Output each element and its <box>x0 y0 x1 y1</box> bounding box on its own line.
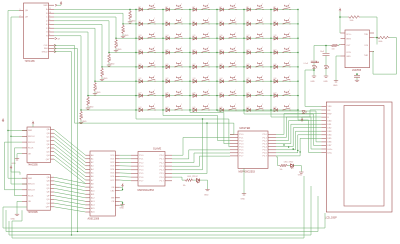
pin QH of IC2 <box>51 154 55 156</box>
junction row 1 pulldown <box>129 9 130 10</box>
svg-text:D19: D19 <box>139 49 142 51</box>
power +5V for 555 <box>339 9 341 12</box>
pin P2.6 of U3 <box>268 152 276 154</box>
pin 7 of IC1 left <box>19 16 24 18</box>
pin P1.1 of U3 <box>230 137 238 139</box>
ground of R6 <box>94 92 96 94</box>
resistor R3 10k pulldown row 3 <box>115 39 118 49</box>
pin DB1 of LCD <box>321 123 326 125</box>
switch S29 <box>256 62 263 66</box>
switch S34 <box>229 77 236 82</box>
svg-text:LED+: LED+ <box>328 149 334 151</box>
junction matrix R8C5 <box>243 109 244 110</box>
svg-text:D8: D8 <box>166 21 168 23</box>
svg-text:LMC555: LMC555 <box>352 69 362 72</box>
pin C of IC1 <box>49 16 55 18</box>
wire bottom bus 3 <box>9 186 311 235</box>
ground IC3 OE <box>15 214 19 215</box>
svg-text:7: 7 <box>20 15 21 17</box>
svg-text:GND: GND <box>96 92 101 94</box>
diode D30 <box>274 65 277 68</box>
junction matrix R1C2 <box>162 9 163 10</box>
diode D43 <box>139 108 142 112</box>
pin DB3 of LCD <box>321 130 326 132</box>
shift register IC1 74HC165 <box>24 3 49 59</box>
svg-text:D38: D38 <box>166 93 169 95</box>
pin P1.0 of U2 <box>131 154 138 156</box>
wire IC3 Q4 to RAM A12 <box>54 192 86 198</box>
wire MASTER P2.4 to LCD <box>276 128 321 147</box>
svg-text:LED-: LED- <box>328 152 333 154</box>
switch S6 <box>283 5 290 9</box>
pin P2.3 of U3 <box>268 143 276 145</box>
junction row 2 pulldown <box>122 23 123 24</box>
junction LCD bus 4 <box>297 150 298 151</box>
ground LED_PROC <box>205 190 209 191</box>
junction matrix R3C5 <box>243 38 244 39</box>
svg-text:D14: D14 <box>166 35 169 37</box>
svg-text:660k: 660k <box>379 41 383 43</box>
pin control of IC4 <box>115 186 120 188</box>
pin left 3 of IC3 <box>22 189 27 191</box>
pin IO2 of IC4 <box>115 161 120 163</box>
svg-text:D31: D31 <box>139 78 142 80</box>
pin RS of LCD <box>321 109 326 111</box>
junction matrix R7C2 <box>162 95 163 96</box>
wire MASTER P2.5 to LCD <box>276 131 321 150</box>
junction matrix R7C6 <box>270 95 271 96</box>
pin A6 of IC4 <box>86 176 91 178</box>
pin QB of IC3 <box>51 180 55 182</box>
wire IC2 Q6 to RAM A6 <box>54 152 86 177</box>
svg-text:TRE: TRE <box>364 34 369 36</box>
wire 100 to LED branch <box>314 45 331 47</box>
pin P1.6 of U2 <box>131 176 138 178</box>
junction matrix R6C7 <box>297 81 298 82</box>
diode D1 <box>139 8 142 11</box>
resistor R5 10k pulldown row 5 <box>101 67 104 77</box>
pin E of LCD <box>321 116 326 118</box>
ground of R2 <box>122 34 124 36</box>
svg-text:D41: D41 <box>247 93 250 95</box>
wire row C to matrix row 3 <box>54 17 298 38</box>
junction matrix R5C6 <box>270 66 271 67</box>
switch S14 <box>175 34 182 38</box>
junction matrix R1C5 <box>243 9 244 10</box>
diode D42 <box>274 94 277 97</box>
wire SLAVE to LED_PROC resistor <box>172 177 185 180</box>
switch S12 <box>283 19 290 23</box>
switch S32 <box>175 77 182 82</box>
switch S9 <box>202 19 209 23</box>
junction matrix R5C5 <box>243 66 244 67</box>
svg-text:4: 4 <box>49 34 50 36</box>
pin GND of IC5 <box>341 55 346 57</box>
switch S25 <box>148 62 155 66</box>
diode D23 <box>247 51 250 54</box>
switch S47 <box>256 105 263 110</box>
svg-text:7: 7 <box>49 23 50 25</box>
pin A5 of IC4 <box>86 172 91 174</box>
ground 555 <box>334 81 338 82</box>
junction matrix R5C4 <box>216 66 217 67</box>
wire matrix column 5 <box>243 10 245 115</box>
wire IC3 Q0 to RAM A8 <box>54 177 86 183</box>
svg-text:10k: 10k <box>124 29 126 32</box>
svg-text:AS6C1008: AS6C1008 <box>88 218 100 221</box>
pin A10 of IC4 <box>86 190 91 192</box>
pin DB5 of LCD <box>321 137 326 139</box>
diode D46 <box>220 108 223 112</box>
svg-text:D3: D3 <box>193 6 195 8</box>
svg-text:MSP430G2553: MSP430G2553 <box>239 170 256 173</box>
wire RAM IO0 to SLAVE <box>120 154 131 156</box>
svg-text:D32: D32 <box>166 78 169 80</box>
svg-text:74HC165: 74HC165 <box>25 60 36 63</box>
svg-text:D30: D30 <box>274 64 277 66</box>
resistor R12 660k <box>377 36 390 39</box>
wire IC1 SH/LD down to bottom bus <box>54 52 72 235</box>
junction row 3 pulldown <box>115 38 116 39</box>
junction matrix R1C7 <box>297 9 298 10</box>
pin left 1 of IC2 <box>22 130 27 132</box>
junction matrix R7C7 <box>297 95 298 96</box>
junction matrix R8C2 <box>162 109 163 110</box>
diode D21 <box>193 51 196 54</box>
junction RAM OE <box>122 189 123 190</box>
svg-text:GND: GND <box>124 35 129 37</box>
wire SLAVE P2.3 to MASTER P1.7 <box>172 156 230 166</box>
diode D41 <box>247 94 250 97</box>
pin P1.5 of U2 <box>131 172 138 174</box>
svg-text:D28: D28 <box>220 64 223 66</box>
svg-text:9: 9 <box>20 9 21 11</box>
junction matrix R8C4 <box>216 109 217 110</box>
svg-text:RCLK: RCLK <box>28 195 34 197</box>
svg-text:D37: D37 <box>139 93 142 95</box>
junction on left bus 2 <box>10 136 11 137</box>
switch S43 <box>148 105 155 110</box>
svg-text:D26: D26 <box>166 64 169 66</box>
pin DB6 of LCD <box>321 141 326 143</box>
switch S26 <box>175 62 182 66</box>
svg-text:GND: GND <box>204 194 209 196</box>
junction matrix R8C1 <box>135 109 136 110</box>
wire MASTER to LED_IND <box>276 157 279 166</box>
pin control of IC4 <box>115 201 120 203</box>
junction matrix R2C4 <box>216 23 217 24</box>
wire IC2 pin RCLK from bus <box>15 148 23 196</box>
junction LCD bus 5 <box>299 151 300 152</box>
capacitor C1 10n at THR <box>356 73 358 76</box>
diode D40 <box>220 94 223 97</box>
junction matrix R1C1 <box>135 9 136 10</box>
junction matrix R4C5 <box>243 52 244 53</box>
diode D5 <box>247 8 250 11</box>
wire MASTER P2.7 to LCD <box>276 138 321 156</box>
junction row 4 pulldown <box>108 52 109 53</box>
svg-text:QH*: QH* <box>46 207 50 209</box>
pin THR of IC5 <box>370 51 375 53</box>
svg-text:INH: INH <box>44 48 48 50</box>
junction matrix R6C5 <box>243 81 244 82</box>
pin QD of IC3 <box>51 187 55 189</box>
pin TRE of IC5 <box>370 32 375 34</box>
junction matrix R2C5 <box>243 23 244 24</box>
pin P2.1 of U2 <box>165 158 172 160</box>
switch S2 <box>175 5 182 9</box>
pin QD of IC2 <box>51 140 55 142</box>
junction matrix R3C4 <box>216 38 217 39</box>
pin OUT of IC5 <box>341 44 346 46</box>
svg-text:D44: D44 <box>166 107 169 109</box>
pin VCC of IC5 <box>341 32 346 34</box>
wire matrix column 3 <box>189 10 191 113</box>
pin A12 of IC4 <box>86 197 91 199</box>
pin QB of IC2 <box>51 132 55 134</box>
resistor R11 100k <box>348 16 360 19</box>
svg-text:D20: D20 <box>166 49 169 51</box>
wire bottom bus 2 <box>6 196 318 232</box>
svg-text:SRCLR: SRCLR <box>28 190 35 192</box>
diode D18 <box>274 37 277 40</box>
wire IC1 INH down to bottom bus <box>54 49 78 232</box>
ground LED D4 <box>312 76 316 77</box>
switch S19 <box>148 48 155 52</box>
svg-text:GND: GND <box>241 199 246 201</box>
diode D51 at LCD supply <box>302 111 307 114</box>
svg-text:SER: SER <box>43 5 48 7</box>
junction matrix R3C3 <box>189 38 190 39</box>
svg-text:D16: D16 <box>220 35 223 37</box>
pin P2.2 of U2 <box>165 162 172 164</box>
junction row 7 pulldown <box>87 95 88 96</box>
svg-text:SER: SER <box>28 178 33 180</box>
svg-text:SH/LD: SH/LD <box>42 51 48 53</box>
svg-text:10k: 10k <box>110 58 112 61</box>
svg-text:D21: D21 <box>193 49 196 51</box>
pin A11 of IC4 <box>86 193 91 195</box>
ground LED D53 <box>324 76 328 77</box>
pin DB4 of LCD <box>321 134 326 136</box>
junction backlight <box>313 69 315 71</box>
pin A13 of IC4 <box>86 200 91 202</box>
diode D47 <box>247 108 250 112</box>
svg-text:D7: D7 <box>139 21 141 23</box>
pin QH of IC3 <box>51 206 55 208</box>
pin G of IC1 <box>49 31 55 33</box>
wire IC3 Q1 to RAM A9 <box>54 181 86 187</box>
svg-text:D36: D36 <box>274 78 277 80</box>
pin P2.7 of U3 <box>268 155 276 157</box>
svg-text:74HC595: 74HC595 <box>28 164 39 167</box>
wire IC2 Q2 to RAM A2 <box>54 137 86 162</box>
svg-text:QH*: QH* <box>46 159 50 161</box>
diode D24 <box>274 51 277 54</box>
junction matrix R8C3 <box>189 109 190 110</box>
svg-text:D11: D11 <box>247 21 250 23</box>
diode D14 <box>166 37 169 40</box>
svg-text:LED_GND: LED_GND <box>284 162 294 164</box>
pin A2 of IC4 <box>86 161 91 163</box>
pin P2.2 of U3 <box>268 140 276 142</box>
switch S31 <box>148 77 155 82</box>
diode D20 <box>166 51 169 54</box>
junction matrix R3C7 <box>297 38 298 39</box>
wire RAM IO4 to SLAVE <box>120 168 131 170</box>
pin left 5 of IC2 <box>22 153 27 155</box>
pin clock of IC1 <box>49 48 55 50</box>
svg-text:74HC595: 74HC595 <box>28 211 39 214</box>
pin P2.4 of U3 <box>268 146 276 148</box>
svg-text:10k: 10k <box>96 87 98 90</box>
pin left 5 of IC3 <box>22 200 27 202</box>
junction SLAVE bus 1 <box>202 118 203 119</box>
svg-text:/RES: /RES <box>346 39 351 41</box>
switch S3 <box>202 5 209 9</box>
wire RAM IO3 to SLAVE <box>120 165 131 167</box>
capacitor C2 10uF <box>325 46 327 54</box>
junction matrix R4C6 <box>270 52 271 53</box>
diode D10 <box>220 22 223 25</box>
junction LCD bus 1 <box>283 144 284 145</box>
svg-text:D18: D18 <box>274 35 277 37</box>
diode D11 <box>247 22 250 25</box>
svg-text:GND: GND <box>333 85 338 87</box>
diode D4 <box>220 8 223 11</box>
wire LCD VDD supply <box>310 109 321 111</box>
diode D32 <box>166 80 169 84</box>
svg-text:D6: D6 <box>274 6 276 8</box>
svg-text:100: 100 <box>332 49 335 51</box>
svg-text:GND: GND <box>103 78 108 80</box>
ground of R3 <box>115 49 117 51</box>
junction matrix R6C1 <box>135 81 136 82</box>
svg-text:GND: GND <box>82 121 87 123</box>
pin left 2 of IC2 <box>22 135 27 137</box>
wire row D to matrix row 4 <box>54 21 298 53</box>
wire 100k to DIS <box>360 17 377 45</box>
switch S17 <box>256 34 263 38</box>
svg-text:D42: D42 <box>274 93 277 95</box>
diode D29 <box>247 65 250 68</box>
pin left 1 of IC3 <box>22 177 27 179</box>
pin A15 of IC4 <box>86 207 91 209</box>
diode D37 <box>139 94 142 97</box>
switch S36 <box>283 77 290 82</box>
pin QE of IC3 <box>51 191 55 193</box>
pin clock of IC1 <box>49 44 55 46</box>
LCD display module <box>326 102 392 212</box>
svg-text:GND: GND <box>117 49 122 51</box>
diode D27 <box>193 65 196 68</box>
diode D19 <box>139 51 142 54</box>
diode D15 <box>193 37 196 40</box>
switch S8 <box>175 19 182 23</box>
wire matrix column 4 <box>216 10 218 112</box>
pin P1.4 of U3 <box>230 146 238 148</box>
switch S16 <box>229 34 236 38</box>
switch S22 <box>229 48 236 52</box>
pin P1.3 of U2 <box>131 165 138 167</box>
switch S44 <box>175 105 182 110</box>
svg-text:10: 10 <box>49 12 51 14</box>
LED D53 <box>324 66 329 69</box>
wire SLAVE P2.2 to MASTER P1.6 <box>172 153 230 163</box>
pin control of IC4 <box>115 197 120 199</box>
junction matrix R1C4 <box>216 9 217 10</box>
wire column4 to LCD DB4 <box>217 111 321 142</box>
pin P2.5 of U2 <box>165 172 172 174</box>
pin IO3 of IC4 <box>115 165 120 167</box>
wire column3 to MASTER P1.3 <box>190 113 230 144</box>
wire IC3 Q6 to RAM A14 <box>54 199 86 205</box>
junction matrix R7C3 <box>189 95 190 96</box>
svg-text:QG: QG <box>46 151 50 153</box>
svg-text:10k: 10k <box>82 116 84 119</box>
pin H of IC1 <box>49 35 55 37</box>
wire IC2 Q7 to RAM A7 <box>54 155 86 180</box>
svg-text:D40: D40 <box>220 93 223 95</box>
svg-text:10k: 10k <box>103 72 105 75</box>
svg-text:D10: D10 <box>220 21 223 23</box>
pin QC of IC3 <box>51 184 55 186</box>
diode D12 <box>274 22 277 25</box>
diode D3 <box>193 8 196 11</box>
switch S38 <box>175 91 182 95</box>
diode D34 <box>220 80 223 84</box>
wire IC2 Q4 to RAM A4 <box>54 144 86 169</box>
switch S39 <box>202 91 209 95</box>
svg-text:QG: QG <box>46 199 50 201</box>
ground of R7 <box>87 106 89 108</box>
switch S10 <box>229 19 236 23</box>
wire LED backlight to LCD VSS <box>305 70 321 106</box>
svg-text:D23: D23 <box>247 49 250 51</box>
diode D31 <box>139 80 142 84</box>
switch S28 <box>229 62 236 66</box>
pin QH of IC3 <box>51 202 55 204</box>
switch S27 <box>202 62 209 66</box>
diode D22 <box>220 51 223 54</box>
svg-text:D2: D2 <box>166 6 168 8</box>
svg-text:GND: GND <box>11 218 16 220</box>
svg-text:5: 5 <box>49 31 50 33</box>
svg-text:D43: D43 <box>139 107 142 109</box>
svg-text:SRCLK: SRCLK <box>28 184 35 186</box>
diode D35 <box>247 80 250 84</box>
svg-text:GND: GND <box>120 207 125 209</box>
pin IO4 of IC4 <box>115 168 120 170</box>
svg-text:10k: 10k <box>280 169 283 171</box>
svg-text:GND: GND <box>323 81 328 83</box>
junction RAM WE <box>122 202 123 203</box>
wire 555 OUT to resistor <box>339 45 341 46</box>
junction matrix R4C1 <box>135 52 136 53</box>
svg-text:GND: GND <box>346 56 351 58</box>
pin IO7 of IC4 <box>115 179 120 181</box>
pin P1.7 of U2 <box>131 180 138 182</box>
pin QE of IC2 <box>51 143 55 145</box>
ground of R4 <box>108 63 110 65</box>
wire MASTER P2.2 to LCD <box>276 121 321 141</box>
wire column7 to LCD DB7 <box>298 120 321 153</box>
wire MASTER P2.0 to LCD <box>276 114 321 135</box>
junction LCD bus 3 <box>293 148 294 149</box>
power +5V above IC2 <box>32 125 34 128</box>
svg-text:CLK: CLK <box>44 45 49 47</box>
diode D26 <box>166 65 169 68</box>
